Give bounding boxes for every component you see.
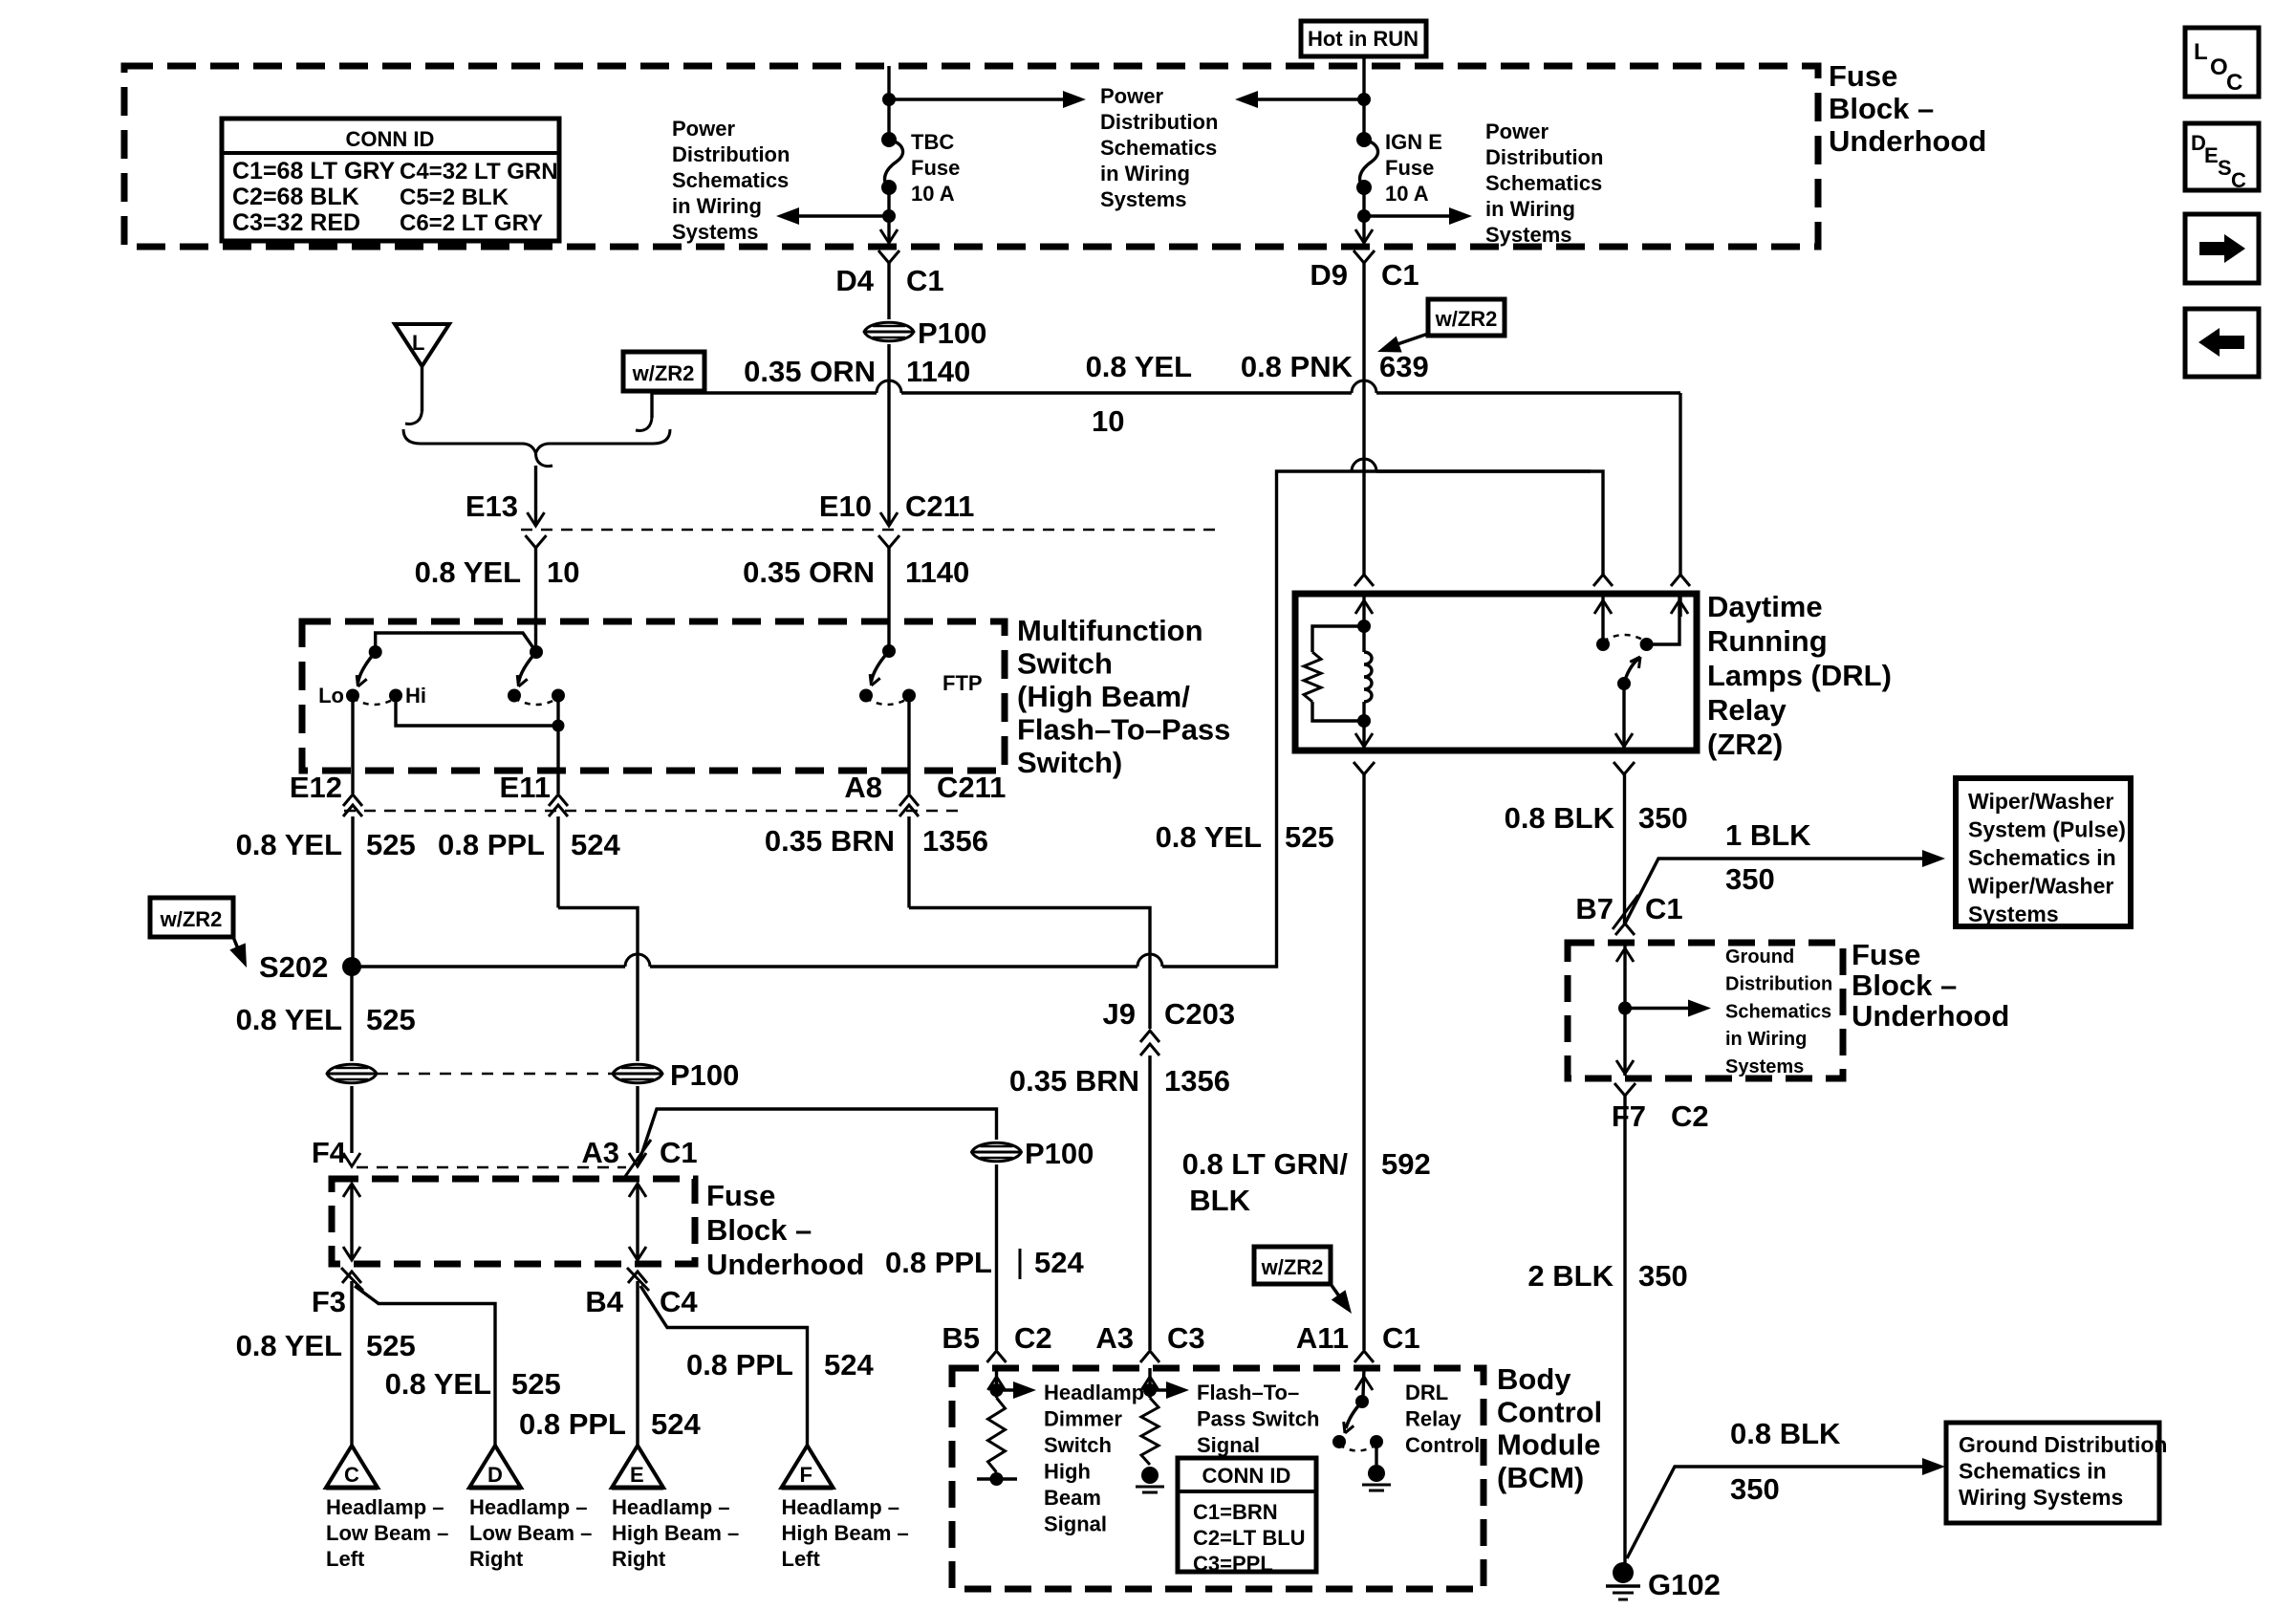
svg-text:525: 525 <box>1285 820 1334 854</box>
svg-text:C3=PPL: C3=PPL <box>1193 1552 1273 1576</box>
svg-text:Power: Power <box>1100 84 1163 108</box>
svg-text:J9: J9 <box>1103 997 1136 1031</box>
arm arrowhead <box>872 678 880 685</box>
arm arrowhead <box>519 679 528 686</box>
pin F4 chevron <box>343 1153 360 1166</box>
wire: IGN E feed vertical <box>1362 56 1365 140</box>
dashed throw arc <box>514 698 558 705</box>
svg-text:C2=68 BLK: C2=68 BLK <box>232 184 359 210</box>
svg-text:2 BLK: 2 BLK <box>1527 1259 1614 1293</box>
node: ground dist tap <box>1618 1002 1632 1015</box>
svg-text:C: C <box>2231 168 2246 192</box>
resistor (dimmer signal) <box>988 1398 1006 1472</box>
wire: E11 drop inside switch <box>556 696 559 794</box>
svg-text:w/ZR2: w/ZR2 <box>160 907 223 931</box>
up arrow (A11 entry) <box>1355 1377 1373 1390</box>
svg-text:0.8 BLK: 0.8 BLK <box>1505 801 1615 835</box>
arm arrowhead <box>1630 657 1640 662</box>
svg-text:0.8 YEL: 0.8 YEL <box>236 1329 342 1362</box>
svg-text:0.8 PPL: 0.8 PPL <box>885 1246 992 1279</box>
svg-text:C2: C2 <box>1671 1099 1709 1133</box>
svg-text:Systems: Systems <box>1485 223 1572 247</box>
arrowhead at C211 <box>880 512 898 526</box>
svg-text:Headlamp –: Headlamp – <box>469 1495 588 1519</box>
svg-text:in Wiring: in Wiring <box>672 194 762 218</box>
svg-text:350: 350 <box>1638 801 1688 835</box>
down arrow <box>1616 1060 1634 1074</box>
svg-text:D: D <box>487 1463 503 1487</box>
Body Control Module (BCM) dashed box <box>952 1368 1484 1589</box>
svg-text:0.8 PPL: 0.8 PPL <box>438 828 545 861</box>
svg-text:B5: B5 <box>942 1321 980 1355</box>
relay contact (NO) <box>1596 638 1610 651</box>
svg-text:O: O <box>2210 54 2228 80</box>
svg-text:0.8 YEL: 0.8 YEL <box>415 555 521 589</box>
grommet P100 (YEL wire) <box>327 1064 377 1083</box>
DESC nav box <box>2185 123 2259 190</box>
wire: bend down from w/ZR2 <box>650 393 653 418</box>
svg-text:C1=BRN: C1=BRN <box>1193 1500 1278 1524</box>
Daytime Running Lamps (DRL) Relay (ZR2) box <box>1295 594 1697 751</box>
wire: PPL to A3 <box>636 1086 639 1153</box>
svg-text:Block –: Block – <box>706 1213 812 1247</box>
svg-text:Left: Left <box>326 1547 365 1571</box>
svg-text:B4: B4 <box>585 1285 623 1318</box>
ground (FTP signal) <box>1136 1467 1164 1492</box>
svg-text:E: E <box>2204 143 2219 167</box>
arm arrowhead <box>358 679 367 686</box>
svg-text:1356: 1356 <box>1164 1064 1230 1098</box>
svg-text:C1: C1 <box>906 264 944 297</box>
arm arrowhead <box>1345 1425 1354 1433</box>
svg-text:0.8 PPL: 0.8 PPL <box>686 1348 793 1382</box>
svg-text:0.35 BRN: 0.35 BRN <box>1009 1064 1139 1098</box>
svg-text:A3: A3 <box>581 1136 619 1169</box>
arrowhead to S202 <box>229 943 247 968</box>
svg-text:C203: C203 <box>1164 997 1235 1031</box>
svg-text:Left: Left <box>782 1547 821 1571</box>
svg-text:0.8 YEL: 0.8 YEL <box>385 1367 491 1401</box>
svg-text:Switch: Switch <box>1017 647 1113 681</box>
svg-text:Underhood: Underhood <box>1829 124 1986 158</box>
svg-text:Systems: Systems <box>672 220 759 244</box>
svg-text:Fuse: Fuse <box>1829 59 1897 93</box>
svg-text:F3: F3 <box>312 1285 346 1318</box>
dashed throw arc (control) <box>1339 1445 1376 1451</box>
node: TBC branch junction <box>882 93 896 106</box>
svg-text:Wiper/Washer: Wiper/Washer <box>1968 789 2113 814</box>
contact <box>1332 1435 1346 1448</box>
svg-text:Body: Body <box>1497 1362 1571 1396</box>
ground G102 <box>1606 1562 1640 1599</box>
grommet P100 (ORN wire) <box>864 322 914 341</box>
svg-text:E11: E11 <box>500 771 551 804</box>
wire: FTP to A8 <box>907 696 910 794</box>
svg-text:Relay: Relay <box>1707 693 1787 727</box>
svg-text:P100: P100 <box>918 316 986 350</box>
wire below L triangle <box>421 366 423 411</box>
svg-text:F7: F7 <box>1612 1099 1646 1133</box>
svg-text:C: C <box>344 1463 359 1487</box>
svg-text:Right: Right <box>612 1547 666 1571</box>
hop over ORN wire <box>877 381 901 393</box>
svg-text:Systems: Systems <box>1725 1056 1804 1077</box>
wire: 0.35 ORN 1140 vertical <box>887 263 890 319</box>
svg-text:CONN ID: CONN ID <box>1202 1464 1291 1488</box>
w/ZR2 flag (near D9) <box>1428 299 1505 336</box>
wire: E13 drop <box>534 466 537 524</box>
svg-text:524: 524 <box>571 828 620 861</box>
wire: relay output 0.8 BLK 350 <box>1623 774 1626 925</box>
CONN ID table (BCM) <box>1178 1458 1316 1572</box>
harness brace (gathers L and w/ZR2 wires) <box>403 429 670 453</box>
svg-text:F4: F4 <box>312 1136 347 1169</box>
pin slash B4/C4 <box>627 1268 649 1291</box>
svg-text:DRL: DRL <box>1405 1381 1448 1404</box>
arrowhead down at fuse block exit <box>1355 229 1373 243</box>
svg-text:C4=32 LT GRN: C4=32 LT GRN <box>400 159 558 185</box>
wire: Hi contact to E11 <box>396 696 558 727</box>
pin slash B7/C1 <box>1613 895 1638 929</box>
svg-text:Daytime: Daytime <box>1707 590 1823 623</box>
connector C211 dashed line (upper) <box>521 529 1224 532</box>
arrowhead at C211 <box>528 512 545 526</box>
pin A3 chevron <box>629 1153 646 1166</box>
contact Hi <box>389 689 402 703</box>
CONN ID table (fuse block) <box>222 119 559 241</box>
w/ZR2 flag (A11) <box>1254 1247 1331 1284</box>
wire: 2 BLK 350 to G102 <box>1623 1096 1626 1564</box>
svg-text:Fuse: Fuse <box>1852 938 1920 971</box>
svg-text:High Beam –: High Beam – <box>782 1521 909 1545</box>
svg-text:C1: C1 <box>1645 892 1683 925</box>
svg-text:0.35 BRN: 0.35 BRN <box>765 824 895 858</box>
svg-text:(High Beam/: (High Beam/ <box>1017 680 1190 713</box>
grommet P100 (PPL to BCM) <box>972 1142 1022 1162</box>
wire: branch A3 to BCM B5 <box>638 1109 997 1166</box>
arrowhead to PNK wire <box>1377 337 1402 353</box>
connector pins F3 / B4-C4 <box>342 1272 361 1283</box>
connector triangle L (antenna symbol) <box>395 324 449 366</box>
svg-text:1 BLK: 1 BLK <box>1725 818 1811 852</box>
svg-text:in Wiring: in Wiring <box>1100 162 1190 185</box>
LOC nav box <box>2185 28 2259 97</box>
switch arm (mid) <box>519 652 537 683</box>
hop over PNK wire <box>1352 459 1376 471</box>
svg-text:Schematics: Schematics <box>1725 1001 1831 1022</box>
connector C1 pin D9 (Y symbol) <box>1354 250 1375 263</box>
pin slash A3/C1 <box>624 1140 651 1178</box>
svg-text:C6=2 LT GRY: C6=2 LT GRY <box>400 210 543 236</box>
wire below IGN E fuse <box>1362 187 1365 241</box>
connector C1 pin D4 (Y symbol) <box>878 250 899 263</box>
BCM: headlamp dimmer input <box>995 1368 998 1398</box>
wire: F3 branch to headlamp D <box>355 1286 495 1446</box>
wire: DRL control to BCM A11 <box>1362 774 1365 1350</box>
svg-text:Control: Control <box>1497 1395 1602 1428</box>
svg-text:C5=2 BLK: C5=2 BLK <box>400 185 509 210</box>
relay contact-side entries <box>1593 575 1613 586</box>
svg-text:CONN ID: CONN ID <box>346 127 435 151</box>
node: mid pivot <box>530 645 543 659</box>
wire: S202 bus to DRL relay <box>352 965 625 968</box>
connector C2 pin F7 <box>1614 1083 1635 1096</box>
svg-text:10: 10 <box>547 555 579 589</box>
wire: B4 branch to headlamp F <box>640 1286 808 1447</box>
wire: 0.8 YEL 10 to relay contact side <box>1679 393 1681 575</box>
svg-text:Power: Power <box>672 117 735 141</box>
svg-text:BLK: BLK <box>1189 1184 1250 1217</box>
svg-text:Fuse: Fuse <box>1385 156 1434 180</box>
svg-text:E10: E10 <box>819 490 872 523</box>
dashed connector line C1 <box>357 1166 626 1169</box>
internal terminal arrows <box>350 1186 353 1258</box>
svg-text:1140: 1140 <box>905 555 969 589</box>
wire: Lo to E12 <box>351 696 354 794</box>
connector triangle D (Headlamp Low Beam Right) <box>469 1446 521 1488</box>
svg-text:C2: C2 <box>1014 1321 1052 1355</box>
hop over PNK wire <box>1352 381 1376 393</box>
svg-text:350: 350 <box>1725 862 1775 896</box>
svg-text:525: 525 <box>366 828 416 861</box>
relay resistor (parallel) <box>1312 626 1364 652</box>
svg-text:C3=32 RED: C3=32 RED <box>232 209 360 236</box>
node: coil bottom <box>1357 714 1371 728</box>
svg-text:Headlamp: Headlamp <box>1044 1381 1144 1404</box>
svg-text:Right: Right <box>469 1547 524 1571</box>
resistor (FTP signal) <box>1141 1398 1159 1465</box>
svg-text:0.35 ORN: 0.35 ORN <box>743 555 875 589</box>
(gap repaint over hop) <box>1376 469 1591 472</box>
svg-text:(ZR2): (ZR2) <box>1707 728 1783 761</box>
down arrow (coil out) <box>1355 733 1373 747</box>
contact (FTP left) <box>859 689 873 703</box>
svg-text:Schematics in: Schematics in <box>1968 845 2116 870</box>
connector C211 pin E10 <box>878 535 899 548</box>
svg-text:Schematics in: Schematics in <box>1959 1459 2107 1484</box>
svg-text:639: 639 <box>1379 350 1429 383</box>
svg-text:Headlamp –: Headlamp – <box>612 1495 730 1519</box>
switch: high/low beam feed link <box>376 633 536 652</box>
svg-text:0.8 PPL: 0.8 PPL <box>519 1407 626 1441</box>
svg-text:Power: Power <box>1485 120 1549 143</box>
dashed throw arc (relay) <box>1603 635 1646 642</box>
pin slash F3 <box>341 1268 363 1291</box>
BCM pins <box>987 1351 1007 1362</box>
svg-text:524: 524 <box>1034 1246 1084 1279</box>
svg-text:Signal: Signal <box>1044 1512 1107 1536</box>
wire: F3 to headlamp C <box>350 1281 353 1446</box>
switch arm (dimmer) <box>358 652 376 683</box>
svg-text:Beam: Beam <box>1044 1486 1101 1510</box>
svg-text:C3: C3 <box>1167 1321 1205 1355</box>
svg-text:w/ZR2: w/ZR2 <box>1435 307 1498 331</box>
connector C211 dashed line (lower) <box>344 810 965 813</box>
svg-text:Distribution: Distribution <box>672 142 790 166</box>
wire from NC contact up <box>1647 594 1679 644</box>
node: IGN E top junction <box>1357 93 1371 106</box>
branch: 1 BLK 350 to wiper/washer <box>1625 859 1924 925</box>
svg-text:0.8 YEL: 0.8 YEL <box>1156 820 1262 854</box>
svg-text:Hi: Hi <box>405 684 426 707</box>
splice S202 <box>342 957 361 976</box>
pigtail hook (L wire) <box>405 409 422 424</box>
wire: arrow to Power Distribution (left) <box>797 214 889 217</box>
w/ZR2 box (top tap) <box>623 352 704 391</box>
svg-text:Block –: Block – <box>1852 968 1957 1002</box>
wire: 0.35 BRN jog to x=1203 <box>909 908 1150 1030</box>
svg-text:Flash–To–Pass: Flash–To–Pass <box>1017 713 1230 747</box>
pigtail hook (w/ZR2 wire) <box>636 416 652 430</box>
contact <box>1370 1435 1383 1448</box>
svg-text:C1=68 LT GRY: C1=68 LT GRY <box>232 158 396 185</box>
svg-text:C1: C1 <box>1381 258 1419 292</box>
BCM: flash-to-pass input <box>1148 1368 1151 1398</box>
Hot in RUN box <box>1301 21 1426 56</box>
svg-text:Underhood: Underhood <box>1852 999 2009 1033</box>
wire below TBC fuse <box>887 187 890 241</box>
svg-text:B7: B7 <box>1575 892 1614 925</box>
svg-text:Wiper/Washer: Wiper/Washer <box>1968 874 2113 899</box>
svg-text:Headlamp –: Headlamp – <box>326 1495 444 1519</box>
svg-text:Lamps (DRL): Lamps (DRL) <box>1707 659 1892 692</box>
svg-text:525: 525 <box>511 1367 561 1401</box>
svg-text:G102: G102 <box>1648 1568 1721 1601</box>
svg-text:10 A: 10 A <box>911 182 955 206</box>
svg-text:Block –: Block – <box>1829 92 1934 125</box>
svg-text:Fuse: Fuse <box>911 156 960 180</box>
svg-text:Distribution: Distribution <box>1485 145 1603 169</box>
svg-text:A8: A8 <box>844 771 882 804</box>
hop over PPL wire <box>625 954 650 967</box>
svg-text:Systems: Systems <box>1100 187 1187 211</box>
svg-text:0.35 ORN: 0.35 ORN <box>744 355 876 388</box>
svg-text:0.8 BLK: 0.8 BLK <box>1730 1417 1841 1450</box>
svg-text:L: L <box>2194 39 2208 65</box>
svg-text:Hot in RUN: Hot in RUN <box>1308 27 1419 51</box>
svg-text:Relay: Relay <box>1405 1407 1462 1431</box>
svg-text:350: 350 <box>1638 1259 1688 1293</box>
svg-text:E13: E13 <box>466 490 518 523</box>
node: control pivot <box>1355 1395 1369 1408</box>
svg-text:525: 525 <box>366 1003 416 1036</box>
node: coil top <box>1357 620 1371 633</box>
up arrow (B5 entry) <box>988 1377 1006 1390</box>
svg-text:525: 525 <box>366 1329 416 1362</box>
svg-text:Ground: Ground <box>1725 946 1794 968</box>
svg-text:D9: D9 <box>1310 258 1348 292</box>
node: dimmer pivot <box>369 645 382 659</box>
svg-text:Control: Control <box>1405 1433 1480 1457</box>
up arrow (coil in) <box>1355 600 1373 614</box>
svg-text:0.8 LT GRN/: 0.8 LT GRN/ <box>1182 1147 1349 1181</box>
svg-text:Low Beam –: Low Beam – <box>326 1521 448 1545</box>
wire: arrow left to Power Distribution (middle text) <box>1256 98 1364 100</box>
dashed throw arc FTP <box>866 698 909 705</box>
up arrow <box>1594 600 1612 614</box>
svg-text:Schematics: Schematics <box>1100 136 1217 160</box>
wire: YEL to F4 <box>350 1086 353 1153</box>
svg-text:Wiring Systems: Wiring Systems <box>1959 1485 2123 1510</box>
svg-text:524: 524 <box>824 1348 874 1382</box>
svg-text:A3: A3 <box>1095 1321 1134 1355</box>
up arrow (A3 entry) <box>1141 1377 1159 1390</box>
svg-text:in Wiring: in Wiring <box>1485 197 1575 221</box>
svg-text:Ground Distribution: Ground Distribution <box>1959 1432 2167 1457</box>
node: relay common <box>1617 677 1631 690</box>
svg-text:C4: C4 <box>660 1285 698 1318</box>
dashed throw arc Lo-Hi <box>353 698 396 705</box>
hop over BRN wire <box>1137 954 1162 967</box>
svg-text:524: 524 <box>651 1407 701 1441</box>
svg-text:High: High <box>1044 1460 1091 1484</box>
svg-text:w/ZR2: w/ZR2 <box>632 361 695 385</box>
svg-text:L: L <box>412 331 424 355</box>
svg-text:in Wiring: in Wiring <box>1725 1029 1807 1050</box>
svg-text:S202: S202 <box>259 950 328 984</box>
node: Hi/E11 junction <box>552 720 565 732</box>
svg-text:592: 592 <box>1381 1147 1431 1181</box>
svg-text:Signal: Signal <box>1197 1433 1260 1457</box>
svg-text:Low Beam –: Low Beam – <box>469 1521 592 1545</box>
svg-text:10: 10 <box>1092 404 1124 438</box>
BCM: DRL relay control switch <box>1363 1368 1364 1396</box>
svg-text:0.8 YEL: 0.8 YEL <box>236 1003 342 1036</box>
fuse block underhood (lower) dashed box <box>332 1179 695 1264</box>
svg-text:0.8 YEL: 0.8 YEL <box>1086 350 1192 383</box>
fuse TBC (element) <box>881 132 897 147</box>
wire: TBC feed vertical <box>887 66 890 140</box>
svg-text:Lo: Lo <box>318 684 344 707</box>
svg-text:C: C <box>2226 70 2242 96</box>
svg-text:Dimmer: Dimmer <box>1044 1407 1122 1431</box>
wires below C211 <box>351 816 354 967</box>
svg-text:D4: D4 <box>835 264 874 297</box>
svg-text:10 A: 10 A <box>1385 182 1429 206</box>
svg-text:C1: C1 <box>660 1136 698 1169</box>
svg-text:Flash–To–: Flash–To– <box>1197 1381 1299 1404</box>
fuse IGN E (element) <box>1356 132 1372 147</box>
svg-text:1356: 1356 <box>922 824 988 858</box>
left-arrow nav box <box>2185 309 2259 377</box>
coil branch <box>1362 594 1365 626</box>
svg-text:C211: C211 <box>937 771 1006 804</box>
resistor (relay) <box>1304 652 1321 702</box>
svg-text:C1: C1 <box>1382 1321 1420 1355</box>
contact FTP <box>902 689 916 703</box>
relay switch arm <box>1624 659 1638 684</box>
w/ZR2 flag (S202) <box>150 898 233 937</box>
right-arrow nav box <box>2185 214 2259 283</box>
svg-text:E12: E12 <box>290 771 342 804</box>
svg-text:TBC: TBC <box>911 130 954 154</box>
svg-text:Headlamp –: Headlamp – <box>782 1495 900 1519</box>
up arrow <box>1616 948 1634 962</box>
svg-text:Systems: Systems <box>1968 902 2059 926</box>
branch: 0.8 BLK 350 to ground distribution <box>1627 1467 1923 1558</box>
up arrow <box>1671 600 1688 614</box>
connector C203 pin J9 <box>1140 1031 1159 1042</box>
svg-text:Distribution: Distribution <box>1725 974 1832 995</box>
svg-text:Switch): Switch) <box>1017 746 1122 779</box>
svg-text:Underhood: Underhood <box>706 1248 864 1281</box>
arrowhead to GRN/BLK wire <box>1332 1290 1352 1314</box>
svg-text:P100: P100 <box>1025 1137 1094 1170</box>
svg-text:0.8 YEL: 0.8 YEL <box>236 828 342 861</box>
svg-text:0.8 PNK: 0.8 PNK <box>1241 350 1354 383</box>
label divider tick <box>1019 1249 1022 1279</box>
wire: B4 to headlamp E <box>636 1281 639 1446</box>
